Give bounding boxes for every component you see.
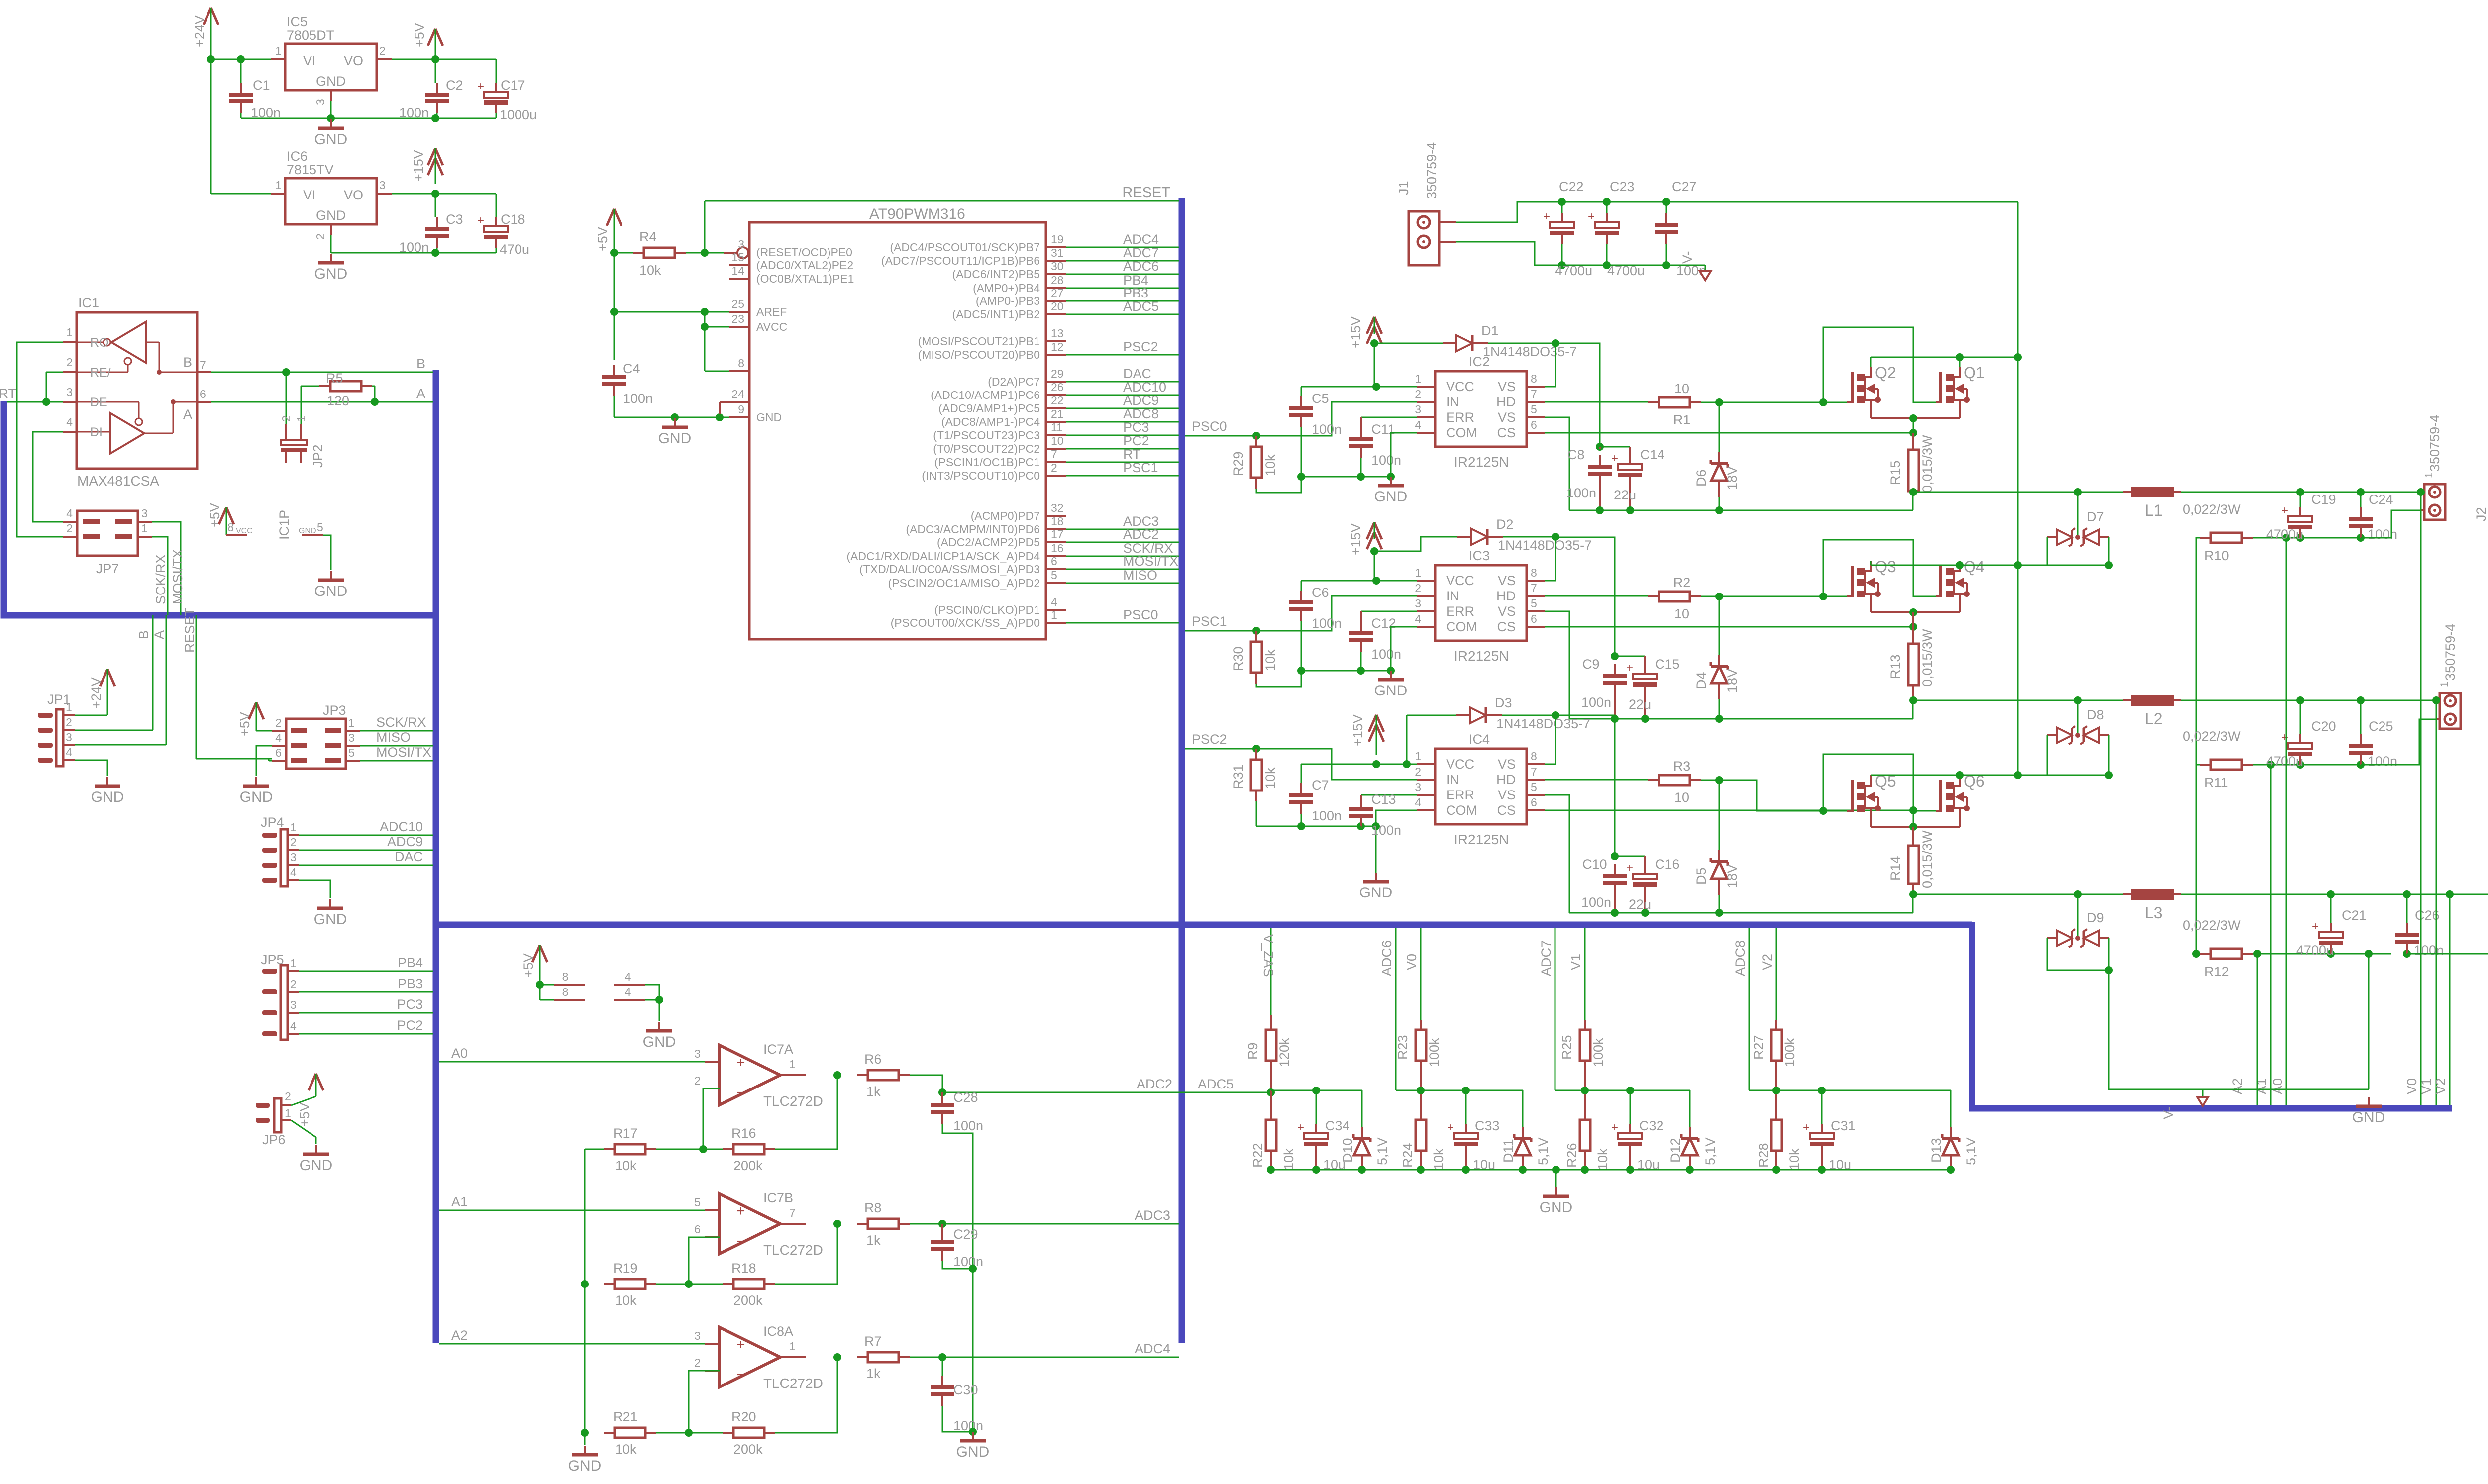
- svg-text:C6: C6: [1312, 585, 1329, 600]
- svg-text:5: 5: [694, 1196, 701, 1209]
- capacitor C21 4700u polarized: [2330, 894, 2332, 931]
- svg-text:C17: C17: [501, 78, 525, 93]
- svg-text:GND: GND: [240, 789, 273, 805]
- svg-text:C20: C20: [2311, 719, 2336, 734]
- net RESET top wire: [705, 200, 1179, 202]
- svg-text:100n: 100n: [953, 1254, 983, 1269]
- svg-text:14: 14: [731, 264, 744, 277]
- wire net MOSI/TX: [1066, 569, 1179, 570]
- wire net ADC8: [1066, 421, 1179, 423]
- wire J2 pin2 return: [2361, 510, 2421, 538]
- MCU right pin 31: [1046, 260, 1066, 262]
- svg-text:GND: GND: [314, 583, 348, 599]
- svg-text:VO: VO: [344, 53, 363, 68]
- svg-text:6: 6: [694, 1223, 701, 1236]
- net B drop to JP1: [152, 615, 154, 730]
- zener D4 18V: [1719, 596, 1720, 655]
- zener diode D12 5,1V: [1689, 1090, 1691, 1127]
- svg-text:D3: D3: [1495, 695, 1512, 710]
- wire JP3 pin1 SCK/RX to bus: [360, 730, 433, 732]
- svg-text:R27: R27: [1751, 1035, 1766, 1060]
- IC1P power pins: [219, 507, 226, 524]
- capacitor C5 100n vcc: [1301, 387, 1302, 396]
- svg-text:C32: C32: [1639, 1118, 1664, 1133]
- wire AVCC: [704, 312, 706, 327]
- MOSFET Q1: [1936, 401, 1941, 403]
- MCU right pin 6: [1046, 568, 1066, 570]
- svg-text:200k: 200k: [733, 1293, 763, 1308]
- capacitor C7 100n vcc: [1301, 764, 1302, 783]
- op-amp supply stubs pin4: [614, 984, 645, 986]
- svg-text:1: 1: [2423, 472, 2435, 478]
- connector JP3: [286, 719, 346, 769]
- svg-text:C15: C15: [1655, 657, 1680, 672]
- capacitor C13 100n err: [1361, 794, 1417, 796]
- op-amp power pins +5V: [532, 945, 540, 962]
- MOSFET Q5: [1847, 810, 1852, 812]
- MCU left pin 14: [729, 278, 749, 280]
- ground symbol divider column: [584, 1446, 586, 1454]
- svg-text:(ADC9/AMP1+)PC5: (ADC9/AMP1+)PC5: [938, 402, 1040, 415]
- svg-text:V0: V0: [1404, 954, 1419, 970]
- svg-text:1: 1: [290, 957, 297, 970]
- wire JP5 pin4 PC2 to bus: [299, 1033, 433, 1035]
- svg-text:R7: R7: [864, 1334, 882, 1349]
- net V2 vertical to bus: [2449, 894, 2451, 1105]
- svg-text:L1: L1: [2145, 501, 2163, 519]
- wire JP4 pin3 DAC to bus: [299, 865, 433, 866]
- svg-text:C8: C8: [1567, 447, 1585, 462]
- MCU right pin 27: [1046, 300, 1066, 302]
- svg-text:18V: 18V: [1725, 669, 1740, 693]
- stage1 cap node from VS: [1555, 343, 1600, 447]
- svg-text:1: 1: [66, 701, 72, 714]
- svg-text:AVCC: AVCC: [756, 320, 787, 333]
- phase output line stage1: [1913, 492, 2424, 493]
- svg-text:10k: 10k: [1431, 1148, 1446, 1170]
- capacitor C1: [240, 59, 242, 83]
- svg-text:(PSCIN2/OC1A/MISO_A)PD2: (PSCIN2/OC1A/MISO_A)PD2: [888, 577, 1040, 590]
- svg-text:CS: CS: [1497, 619, 1516, 634]
- IC1 driver triangle: [110, 413, 144, 454]
- svg-text:7: 7: [200, 359, 206, 372]
- net A2 input wire: [439, 1343, 705, 1345]
- svg-text:C34: C34: [1325, 1118, 1350, 1133]
- svg-text:−: −: [736, 1367, 745, 1383]
- svg-text:Q3: Q3: [1875, 558, 1896, 576]
- svg-text:5: 5: [317, 521, 323, 534]
- wire net PSC0: [1066, 622, 1179, 624]
- IC5 voltage regulator 7805DT: [285, 44, 377, 90]
- net A0 input wire: [439, 1061, 705, 1063]
- svg-text:ADC2: ADC2: [1123, 527, 1159, 542]
- svg-text:4: 4: [1415, 796, 1421, 809]
- svg-text:20: 20: [1051, 300, 1064, 313]
- svg-text:R1: R1: [1673, 412, 1691, 427]
- svg-text:(ADC10/ACMP1)PC6: (ADC10/ACMP1)PC6: [931, 389, 1040, 401]
- svg-text:26: 26: [1051, 381, 1064, 394]
- svg-text:6: 6: [1531, 796, 1537, 809]
- svg-text:(ADC5/INT1)PB2: (ADC5/INT1)PB2: [952, 308, 1040, 321]
- wire VCC line stage2: [1301, 580, 1417, 582]
- svg-text:RT: RT: [0, 386, 16, 401]
- inductor L1: [2131, 487, 2174, 497]
- svg-text:IC7B: IC7B: [763, 1190, 793, 1205]
- svg-text:22: 22: [1051, 394, 1064, 407]
- svg-text:3: 3: [1415, 403, 1421, 416]
- svg-text:C18: C18: [501, 212, 525, 227]
- svg-text:2: 2: [290, 836, 297, 849]
- wire +5V down to AREF/AVCC/C4: [614, 253, 615, 312]
- wire JP1 pin3 net A: [75, 744, 166, 746]
- feedback resistor row 3: R21 R20: [604, 1432, 615, 1434]
- svg-text:8: 8: [1531, 750, 1537, 763]
- svg-text:100k: 100k: [1591, 1038, 1606, 1067]
- ground symbol stage2: [1390, 671, 1392, 679]
- svg-text:(ADC7/PSCOUT11/ICP1B)PB6: (ADC7/PSCOUT11/ICP1B)PB6: [881, 254, 1040, 267]
- svg-text:1: 1: [1051, 608, 1057, 621]
- stage3 left ground rail: [1256, 826, 1376, 827]
- svg-text:100n: 100n: [1312, 808, 1342, 823]
- svg-text:+: +: [1626, 861, 1633, 875]
- svg-text:A2: A2: [2230, 1078, 2245, 1094]
- svg-text:ADC8: ADC8: [1123, 406, 1159, 421]
- wire J4 pin2 return: [2407, 913, 2488, 954]
- svg-text:V2: V2: [2433, 1078, 2448, 1094]
- svg-text:2: 2: [66, 356, 73, 369]
- bus: MCU right vertical: [1179, 198, 1185, 1343]
- svg-text:D7: D7: [2087, 509, 2104, 524]
- capacitor C10 100n: [1614, 864, 1616, 876]
- resistor R6 1k: [857, 1074, 868, 1076]
- svg-text:ADC6: ADC6: [1123, 259, 1159, 274]
- svg-text:18V: 18V: [1725, 466, 1740, 490]
- svg-text:3: 3: [141, 507, 148, 520]
- zener D5 18V: [1719, 780, 1720, 851]
- wire R11 left down: [2196, 765, 2200, 954]
- svg-text:GND: GND: [2352, 1109, 2385, 1126]
- resistor R26 10k: [1584, 1090, 1586, 1120]
- MCU right pin 28: [1046, 287, 1066, 289]
- svg-text:+: +: [1611, 1121, 1618, 1134]
- wire net PSC1: [1066, 475, 1179, 477]
- feedback resistor row 2: R19 R18: [604, 1283, 615, 1285]
- svg-text:D6: D6: [1694, 469, 1709, 487]
- net B wire to bus: [211, 372, 433, 373]
- svg-text:2: 2: [66, 716, 72, 729]
- wire R31 to rail: [1256, 801, 1257, 826]
- wire JP1 pin1 to +24V: [75, 715, 107, 716]
- svg-text:A1: A1: [451, 1194, 468, 1209]
- svg-text:C24: C24: [2369, 492, 2393, 507]
- svg-text:10k: 10k: [1263, 649, 1278, 671]
- svg-text:350759-4: 350759-4: [1424, 142, 1439, 199]
- svg-text:C2: C2: [446, 78, 463, 93]
- svg-text:VS: VS: [1498, 410, 1516, 425]
- svg-text:2: 2: [290, 978, 297, 990]
- svg-text:6: 6: [275, 746, 282, 759]
- wire VCC line stage3: [1301, 764, 1417, 765]
- svg-text:PSC2: PSC2: [1192, 732, 1227, 747]
- svg-text:4: 4: [275, 731, 282, 744]
- MCU right pin 11: [1046, 434, 1066, 436]
- svg-text:C31: C31: [1831, 1118, 1856, 1133]
- wire IC7B inverting input: [689, 1237, 720, 1284]
- svg-text:1: 1: [290, 821, 297, 834]
- svg-text:1: 1: [2439, 681, 2450, 687]
- wire R16 to output IC7A: [775, 1075, 837, 1149]
- power +24V symbol: [204, 8, 211, 25]
- svg-text:19: 19: [1051, 233, 1064, 246]
- wire VCC line stage1: [1301, 386, 1417, 388]
- inductor L2: [2131, 695, 2174, 706]
- svg-text:8: 8: [1531, 372, 1537, 385]
- net V0 vertical to bus: [2420, 492, 2422, 1105]
- svg-text:200k: 200k: [733, 1158, 763, 1173]
- MCU right pin 4: [1046, 609, 1066, 611]
- gate hop wire Q2 to Q1: [1823, 327, 1936, 402]
- power +24V symbol at JP1: [100, 669, 107, 686]
- svg-text:1000u: 1000u: [500, 107, 537, 122]
- svg-text:PB3: PB3: [1123, 286, 1148, 300]
- svg-text:13: 13: [1051, 327, 1064, 340]
- resistor R29 10k pulldown: [1255, 436, 1257, 447]
- resistor R30 10k pulldown: [1255, 631, 1257, 642]
- svg-text:1: 1: [66, 326, 73, 339]
- wire C30 bottom to return column: [942, 1406, 973, 1432]
- MCU left pin 15: [729, 264, 749, 266]
- svg-text:0,015/3W: 0,015/3W: [1920, 830, 1935, 888]
- wire pin9 GND: [720, 417, 729, 418]
- svg-text:8: 8: [1531, 566, 1537, 579]
- wire net PC3: [1066, 435, 1179, 436]
- stage2 cap node from VS: [1555, 537, 1615, 656]
- svg-text:(ADC2/ACMP2)PD5: (ADC2/ACMP2)PD5: [937, 536, 1040, 549]
- op-amp driver IC4 IR2125N: [1435, 749, 1527, 824]
- svg-text:8: 8: [738, 357, 744, 370]
- svg-text:GND: GND: [643, 1034, 676, 1050]
- svg-text:PSC1: PSC1: [1123, 460, 1158, 475]
- svg-text:1: 1: [275, 44, 282, 57]
- wire net ADC9: [1066, 408, 1179, 409]
- svg-text:VS: VS: [1498, 379, 1516, 394]
- wire net PB4: [1066, 288, 1179, 289]
- svg-text:MAX481CSA: MAX481CSA: [77, 473, 159, 489]
- svg-text:0,015/3W: 0,015/3W: [1920, 629, 1935, 687]
- svg-text:1k: 1k: [866, 1233, 881, 1248]
- jumper JP6: [274, 1098, 281, 1132]
- source bar stage2: [1871, 611, 1960, 613]
- resistor R13 0,015/3W: [1912, 612, 1914, 644]
- node dots on +24V wire: [207, 55, 215, 63]
- svg-text:3: 3: [290, 998, 297, 1011]
- svg-text:IC5: IC5: [287, 14, 308, 29]
- svg-text:MOSI/TX: MOSI/TX: [376, 745, 431, 760]
- svg-text:V1: V1: [2419, 1078, 2434, 1094]
- svg-text:R21: R21: [613, 1409, 638, 1424]
- svg-text:+: +: [2281, 504, 2288, 517]
- bus: left vertical + horizontal to JP area: [4, 401, 436, 615]
- svg-text:6: 6: [1531, 418, 1537, 431]
- resistor R11 0,022/3W: [2200, 764, 2211, 766]
- svg-text:C14: C14: [1640, 447, 1665, 462]
- svg-text:C21: C21: [2342, 908, 2367, 923]
- ground rail under IC5: [241, 118, 496, 119]
- svg-text:3: 3: [1415, 597, 1421, 610]
- svg-text:2: 2: [314, 233, 327, 240]
- svg-text:2: 2: [285, 1090, 291, 1103]
- svg-text:R25: R25: [1559, 1035, 1574, 1060]
- svg-text:VS: VS: [1498, 573, 1516, 588]
- gate hop wire Q3 to Q4: [1823, 540, 1936, 596]
- svg-text:100n: 100n: [1566, 486, 1596, 500]
- svg-text:HD: HD: [1496, 772, 1516, 787]
- wire IC6 VO to +15V: [377, 193, 392, 195]
- source bar stage3: [1871, 826, 1960, 828]
- wire CS to source bar stage3: [1913, 810, 1914, 827]
- capacitor C28 100n: [941, 1092, 943, 1093]
- svg-text:3: 3: [694, 1329, 701, 1342]
- svg-text:+24V: +24V: [192, 15, 207, 47]
- svg-text:32: 32: [1051, 501, 1064, 514]
- svg-text:AT90PWM316: AT90PWM316: [869, 206, 965, 222]
- IC6 voltage regulator 7815TV: [285, 178, 377, 224]
- svg-text:10k: 10k: [615, 1158, 637, 1173]
- svg-text:3: 3: [290, 851, 297, 864]
- svg-text:C9: C9: [1582, 657, 1600, 672]
- power +5V symbol at JP6: [309, 1074, 316, 1090]
- MOSFET Q3: [1847, 595, 1852, 597]
- resistor R27 100k: [1775, 1020, 1777, 1030]
- stage2 HD gate line to R2: [1545, 595, 1649, 597]
- svg-text:7: 7: [1531, 388, 1537, 400]
- wire net ADC2: [1066, 542, 1179, 543]
- wire IC1P GND: [323, 535, 331, 570]
- wire D1 cathode to VS: [1488, 343, 1555, 344]
- source sense vertical to R15: [1913, 418, 1914, 433]
- MCU right pin 21: [1046, 421, 1066, 423]
- wire +24V to IC5 VI: [211, 59, 271, 60]
- svg-text:R11: R11: [2204, 775, 2228, 790]
- svg-text:IN: IN: [1446, 589, 1459, 603]
- op-amp driver IC2 IR2125N: [1435, 371, 1527, 447]
- svg-text:R12: R12: [2204, 964, 2229, 979]
- stage2 output bottom rail: [2253, 764, 2391, 766]
- drain rail stage3: [1870, 775, 1872, 776]
- ground rail under IC6: [331, 252, 496, 254]
- svg-text:100k: 100k: [1427, 1038, 1442, 1067]
- svg-text:3: 3: [66, 386, 73, 398]
- svg-text:0,015/3W: 0,015/3W: [1920, 435, 1935, 493]
- capacitor C14 22u polarized: [1629, 447, 1631, 455]
- wire D1 anode line: [1374, 343, 1443, 344]
- capacitor C20 4700u polarized: [2300, 700, 2301, 742]
- svg-text:MOSI/TX: MOSI/TX: [170, 549, 185, 604]
- net ADC3 line: [910, 1223, 1179, 1225]
- ground symbol for IC1P: [330, 571, 332, 579]
- svg-text:+: +: [736, 1054, 745, 1071]
- svg-text:(MOSI/PSCOUT21)PB1: (MOSI/PSCOUT21)PB1: [918, 335, 1040, 348]
- svg-text:GND: GND: [956, 1444, 990, 1460]
- suppressor diode D8: [2077, 700, 2079, 733]
- svg-text:+: +: [477, 214, 484, 227]
- MCU AT90PWM316: [749, 222, 1046, 639]
- wire PSC2 input line: [1185, 749, 1417, 780]
- zener diode D10 5,1V: [1361, 1090, 1363, 1127]
- wire pin24: [719, 402, 721, 414]
- wire JP4 pin2 ADC9 to bus: [299, 850, 433, 851]
- svg-text:+: +: [1447, 1121, 1454, 1134]
- wire JP3 pin3 MISO to bus: [360, 745, 433, 747]
- connector J1: [1409, 211, 1439, 265]
- svg-text:22u: 22u: [1629, 697, 1651, 712]
- svg-text:L2: L2: [2145, 710, 2163, 728]
- bus: main left vertical: [433, 370, 439, 1343]
- svg-text:IN: IN: [1446, 395, 1459, 409]
- svg-text:4: 4: [290, 1019, 297, 1032]
- power +5V symbol at R4: [607, 209, 614, 226]
- svg-text:10k: 10k: [1263, 767, 1278, 789]
- stage3 cap node from VS: [1555, 715, 1615, 856]
- resistor R8 1k: [857, 1223, 868, 1225]
- svg-text:R10: R10: [2204, 548, 2229, 563]
- wire net ADC3: [1066, 529, 1179, 530]
- svg-text:4700u: 4700u: [2266, 527, 2303, 542]
- svg-text:17: 17: [1051, 528, 1064, 541]
- svg-text:D2: D2: [1496, 517, 1514, 532]
- svg-text:7805DT: 7805DT: [287, 28, 334, 43]
- svg-text:10k: 10k: [1787, 1148, 1802, 1170]
- stage1 VS pin5 to bottom rail: [1545, 417, 1569, 510]
- svg-text:R14: R14: [1888, 856, 1903, 881]
- wire PSC1 input line: [1185, 596, 1417, 631]
- wire JP6 pin2 to +5V diagonal: [291, 1096, 316, 1105]
- svg-text:RESET: RESET: [182, 608, 197, 653]
- svg-text:B: B: [416, 356, 425, 371]
- svg-text:350759-4: 350759-4: [2427, 415, 2442, 472]
- wire C29 bottom to return column: [942, 1261, 973, 1269]
- MCU right pin 20: [1046, 313, 1066, 315]
- jumper JP2: [285, 424, 287, 440]
- svg-text:4: 4: [1415, 612, 1421, 625]
- wire R29 to rail: [1256, 477, 1301, 493]
- svg-text:GND: GND: [1374, 683, 1408, 699]
- svg-text:COM: COM: [1446, 425, 1477, 440]
- svg-text:27: 27: [1051, 287, 1064, 299]
- divider unit 3 (ADC7/V1): [1555, 928, 1556, 1090]
- wire R3 to gates with jog: [1701, 780, 1719, 781]
- svg-text:+24V: +24V: [89, 677, 104, 709]
- svg-text:R17: R17: [613, 1126, 638, 1141]
- power +5V symbol: [428, 29, 435, 46]
- svg-text:2: 2: [280, 415, 293, 422]
- wire R30 to rail: [1256, 671, 1301, 687]
- resistor R3 10: [1648, 779, 1659, 781]
- wire JP4 pin4 to ground: [299, 880, 330, 898]
- svg-text:V-: V-: [1680, 251, 1695, 264]
- svg-text:D4: D4: [1694, 672, 1709, 689]
- svg-text:PC2: PC2: [1123, 433, 1149, 448]
- svg-text:C25: C25: [2369, 719, 2393, 734]
- svg-text:7: 7: [1531, 582, 1537, 594]
- IC5 pin3 stub to ground rail: [330, 90, 332, 101]
- capacitor C9 100n: [1614, 664, 1616, 676]
- stage3 HD gate line to R3: [1545, 779, 1649, 781]
- svg-text:100n: 100n: [399, 105, 429, 120]
- svg-text:R5: R5: [326, 371, 343, 386]
- svg-text:(INT3/PSCOUT10)PC0: (INT3/PSCOUT10)PC0: [922, 469, 1040, 482]
- zener diode D11 5,1V: [1522, 1090, 1524, 1127]
